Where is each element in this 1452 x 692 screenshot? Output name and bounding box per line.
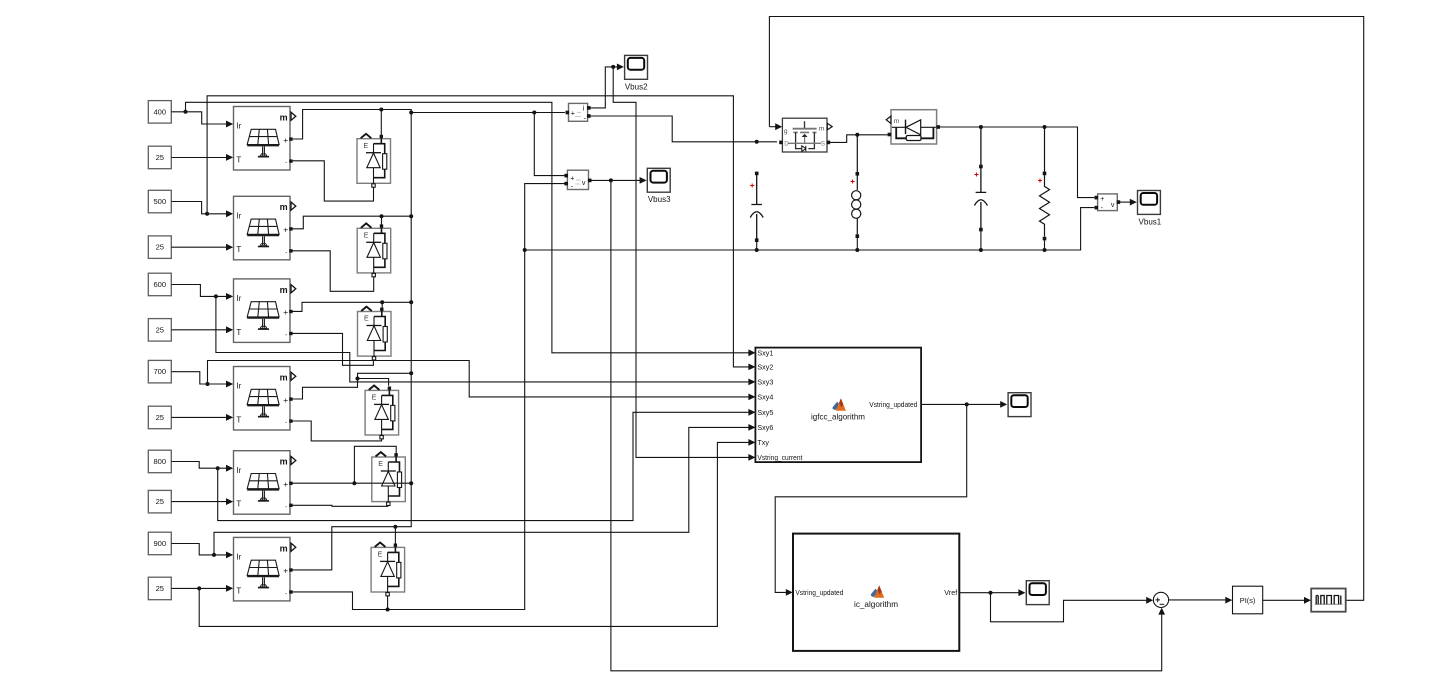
- svg-text:25: 25: [156, 413, 164, 422]
- junction: 500 branch: [205, 212, 209, 216]
- MOSFET block: [779, 118, 832, 152]
- wire: PV1 + to current sensor: [291, 110, 565, 140]
- scope Vbus1: [1138, 191, 1161, 215]
- svg-text:500: 500: [153, 197, 166, 206]
- PV array block PV6: [226, 537, 296, 601]
- arrowhead Vbus2: [617, 64, 624, 71]
- junction: negative bus to rail: [523, 248, 527, 252]
- svg-text:igfcc_algorithm: igfcc_algorithm: [811, 412, 865, 422]
- wire: sum to PI: [1169, 599, 1226, 601]
- arrowhead PV1 T: [226, 154, 233, 161]
- bypass diode block D6: [371, 543, 405, 596]
- junction: diode6 bottom stub: [386, 608, 390, 612]
- wire: diode3 top stub: [381, 302, 383, 308]
- svg-text:S: S: [821, 140, 825, 147]
- junction: v out branch to feedback: [609, 178, 613, 182]
- arrowhead PV4 Ir: [226, 381, 233, 388]
- wire: 25 branch to igfcc Txy: [199, 442, 749, 626]
- svg-text:m: m: [894, 118, 900, 125]
- junction: 400 branch: [184, 110, 188, 114]
- constant block 400: [148, 101, 171, 124]
- arrowhead PV4 T: [226, 414, 233, 421]
- PV array block PV1: [226, 107, 296, 171]
- wire: PWM gate loop top rail: [769, 17, 1363, 601]
- bypass diode block D5: [372, 452, 406, 505]
- junction: rail at inductor: [855, 248, 859, 252]
- voltage measurement block v (Vbus1): [1095, 194, 1121, 212]
- wire: v out feedback to sum: [611, 180, 1162, 670]
- wire: PV4 - to diode4 bottom: [291, 421, 382, 441]
- wire: 400 to PV1 Ir: [171, 112, 226, 124]
- arrowhead Vbus3: [640, 177, 647, 184]
- wire: 500 branch to igfcc Sxy2: [207, 96, 749, 367]
- svg-text:PI(s): PI(s): [1240, 596, 1256, 605]
- wire: 800 to PV5 Ir: [171, 462, 226, 469]
- junction: rail at resistor: [1043, 248, 1047, 252]
- constant block 25 (row5): [148, 490, 171, 513]
- junction: PV2+ on bus: [409, 214, 413, 218]
- svg-text:Vstring_updated: Vstring_updated: [869, 400, 917, 409]
- junction: branch to voltage sensor +: [532, 111, 536, 115]
- wire: PV3 - to diode3 bottom: [291, 333, 374, 365]
- arrowhead PWM input: [1304, 597, 1311, 604]
- wire: 500 to PV2 Ir: [171, 202, 226, 214]
- constant block 25 (row3): [148, 319, 171, 342]
- wire: PV3 + to bus: [291, 302, 412, 311]
- svg-text:g: g: [784, 128, 788, 135]
- junction: Vstring_updated branch: [965, 402, 969, 406]
- svg-text:800: 800: [153, 457, 166, 466]
- wire: diode6 top stub: [394, 527, 396, 544]
- constant block 25 (row4): [148, 406, 171, 429]
- constant block 25 (row2): [148, 236, 171, 259]
- junction: 700 branch: [206, 382, 210, 386]
- arrowhead Sxy2: [748, 364, 755, 371]
- wire: i signal to scope Vbus2: [591, 67, 618, 108]
- constant block 900: [148, 532, 171, 555]
- PV array block PV4: [226, 367, 296, 431]
- wire: boost diode to output rail: [940, 127, 1095, 198]
- junction: load resistor tap: [1043, 125, 1047, 129]
- junction: 900 branch: [212, 553, 216, 557]
- arrowhead PV5 Ir: [226, 465, 233, 472]
- junction: diode6 top stub: [393, 525, 397, 529]
- wire: 25 to PV2 T: [171, 246, 226, 248]
- load resistor: [1038, 128, 1050, 240]
- arrowhead ic input: [786, 589, 793, 596]
- arrowhead gate g input: [775, 123, 782, 130]
- svg-text:Sxy2: Sxy2: [757, 363, 773, 372]
- constant block 600: [148, 273, 171, 296]
- arrowhead PI input: [1225, 597, 1232, 604]
- junction: PV3+ to diode3 top: [380, 300, 384, 304]
- arrowhead Sxy3: [748, 379, 755, 386]
- sum junction: [1153, 592, 1168, 607]
- svg-text:Vref: Vref: [944, 588, 957, 597]
- voltage measurement block v (string): [564, 170, 591, 190]
- wire: Vbus1 sensor to scope: [1120, 201, 1131, 203]
- junction: inductor tap: [855, 133, 859, 137]
- svg-text:v: v: [1111, 202, 1115, 209]
- svg-text:900: 900: [153, 539, 166, 548]
- wire: load resistor bottom to rail: [1044, 241, 1046, 251]
- arrowhead PV1 Ir: [226, 121, 233, 128]
- inductor: [851, 136, 861, 238]
- junction: PV1+ to diode1 top: [379, 108, 383, 112]
- arrowhead igfcc scope: [1000, 401, 1007, 408]
- wire: 25 to PV6 T: [171, 587, 226, 589]
- svg-text:600: 600: [153, 280, 166, 289]
- svg-text:25: 25: [156, 584, 164, 593]
- wire: PV2 + to bus: [291, 216, 412, 229]
- wire: input capacitor bottom to rail: [756, 242, 758, 250]
- wire: 25 to PV1 T: [171, 157, 226, 159]
- bypass diode block D2: [357, 223, 391, 276]
- junction: PV4+ on bus: [409, 371, 413, 375]
- wire: PV5 - to diode5 bottom: [291, 505, 388, 506]
- bypass diode block D1: [357, 134, 391, 187]
- arrowhead sum left input: [1146, 597, 1153, 604]
- svg-text:700: 700: [153, 367, 166, 376]
- wire: MOSFET to boost diode: [830, 135, 888, 143]
- wire: 700 branch to igfcc Sxy4: [208, 361, 749, 397]
- junction: input capacitor tap: [755, 140, 759, 144]
- wire: 600 branch to igfcc Sxy3: [216, 296, 749, 382]
- bypass diode block D3: [358, 307, 392, 360]
- svg-text:ic_algorithm: ic_algorithm: [854, 599, 898, 609]
- wire: 600 to PV3 Ir: [171, 285, 226, 297]
- current measurement block i: [566, 103, 591, 122]
- constant block 25 (row1): [148, 146, 171, 169]
- junction: 800 branch: [216, 466, 220, 470]
- junction: i signal branch: [611, 65, 615, 69]
- MATLAB function block ic_algorithm: [793, 534, 959, 651]
- arrowhead PV5 T: [226, 498, 233, 505]
- scope Vbus3: [647, 168, 670, 192]
- arrowhead Txy: [748, 439, 755, 446]
- svg-text:25: 25: [156, 325, 164, 334]
- constant block 800: [148, 450, 171, 473]
- svg-text:Vstring_updated: Vstring_updated: [795, 588, 843, 597]
- scope igfcc output: [1008, 393, 1031, 417]
- svg-text:Sxy1: Sxy1: [757, 348, 773, 357]
- svg-text:25: 25: [156, 243, 164, 252]
- wire: PV2 - to diode2 bottom: [291, 251, 374, 291]
- svg-text:Txy: Txy: [757, 438, 769, 447]
- junction: rail at output cap: [979, 248, 983, 252]
- MATLAB logo ic: [871, 585, 884, 597]
- wire: Vref to sum: [991, 593, 1147, 622]
- junction: Vref branch: [989, 591, 993, 595]
- junction: rail at input cap: [755, 248, 759, 252]
- junction: PV5+ branch to diode5 top: [352, 481, 356, 485]
- MATLAB function block igfcc_algorithm: [755, 348, 921, 463]
- wire: 700 to PV4 Ir: [171, 372, 226, 384]
- wire: 900 branch to igfcc Sxy6: [214, 427, 749, 555]
- junction: PV3+ on bus: [409, 300, 413, 304]
- wire: PV6 - to diode6 bottom / negative bus: [291, 184, 565, 610]
- junction: PV1+ bus: [409, 111, 413, 115]
- svg-text:Sxy4: Sxy4: [757, 393, 773, 402]
- svg-text:Sxy6: Sxy6: [757, 423, 773, 432]
- wire: PI to PWM: [1263, 599, 1305, 601]
- svg-text:v: v: [582, 178, 586, 187]
- svg-text:Vbus2: Vbus2: [625, 82, 648, 91]
- PWM generator block: [1311, 589, 1346, 612]
- wire: Vstring_updated to ic_algorithm: [775, 404, 967, 592]
- svg-text:Vstring_current: Vstring_current: [757, 453, 802, 462]
- wire: diode2 top stub: [381, 216, 383, 225]
- wire: gate into MOSFET g: [769, 126, 775, 128]
- arrowhead PV6 Ir: [226, 552, 233, 559]
- wire: i signal to igfcc Vstring_current: [613, 67, 749, 458]
- PI controller block: [1233, 586, 1263, 614]
- svg-text:+: +: [571, 109, 575, 118]
- arrowhead PV3 T: [226, 326, 233, 333]
- arrowhead Vstring_current: [748, 454, 755, 461]
- boost diode block: [886, 110, 940, 144]
- wire: inductor bottom to rail: [856, 238, 858, 250]
- svg-text:Sxy5: Sxy5: [757, 408, 773, 417]
- wire: 400 branch to igfcc Sxy1: [186, 102, 749, 352]
- wire: PV4 + to diode4 top: [291, 379, 389, 400]
- wire: branch down to V sensor +: [534, 113, 564, 176]
- wire: 25 to PV5 T: [171, 501, 226, 503]
- arrowhead Vref scope: [1018, 589, 1025, 596]
- junction: PV5+ on bus: [409, 481, 413, 485]
- arrowhead PV6 T: [226, 585, 233, 592]
- wire: diode1 top stub: [380, 110, 382, 136]
- arrowhead PV2 Ir: [226, 210, 233, 217]
- wire: Vstring_updated to scope: [921, 403, 1001, 405]
- wire: PV5+ loop to diode5 top: [354, 446, 396, 483]
- wire: PV1 - to diode1 bottom: [291, 161, 374, 201]
- wire: output capacitor bottom to rail: [980, 231, 982, 250]
- wire: 900 to PV6 Ir: [171, 544, 226, 555]
- wire: PV5 + to bus: [291, 482, 412, 484]
- junction: output capacitor tap: [979, 125, 983, 129]
- arrowhead Vbus1 scope: [1130, 199, 1137, 206]
- svg-text:25: 25: [156, 497, 164, 506]
- svg-text:Vbus1: Vbus1: [1139, 218, 1162, 227]
- svg-text:400: 400: [153, 107, 166, 116]
- wire: Vref to scope: [959, 592, 1019, 594]
- svg-text:m: m: [819, 126, 825, 133]
- wire: v out to scope Vbus3: [591, 179, 640, 181]
- constant block 500: [148, 190, 171, 213]
- wire: converter bottom rail: [525, 208, 1095, 250]
- scope Vref: [1026, 581, 1049, 605]
- junction: 25 branch to Txy: [197, 586, 201, 590]
- arrowhead Sxy6: [748, 424, 755, 431]
- wire: series bus vertical: [291, 113, 412, 570]
- junction: PV4+ branch to bus: [356, 377, 360, 381]
- arrowhead PV3 Ir: [226, 293, 233, 300]
- arrowhead Sxy5: [748, 409, 755, 416]
- scope Vbus2: [625, 55, 648, 79]
- constant block 700: [148, 360, 171, 383]
- svg-text:Sxy3: Sxy3: [757, 378, 773, 387]
- wire: PV4+ branch to bus: [358, 373, 412, 378]
- PV array block PV3: [226, 279, 296, 343]
- wire: diode6 bottom stub: [387, 595, 389, 610]
- PV array block PV5: [226, 451, 296, 515]
- wire: 25 to PV3 T: [171, 329, 226, 331]
- PV array block PV2: [226, 196, 296, 259]
- MATLAB logo igfcc: [833, 398, 846, 410]
- arrowhead sum bottom input: [1158, 608, 1165, 615]
- arrowhead Sxy1: [748, 349, 755, 356]
- wire: i - to MOSFET drain: [591, 116, 777, 142]
- arrowhead Sxy4: [748, 394, 755, 401]
- wire: 25 to PV4 T: [171, 416, 226, 418]
- svg-text:25: 25: [156, 153, 164, 162]
- output capacitor: [974, 128, 987, 231]
- svg-text:+: +: [1100, 196, 1104, 203]
- arrowhead PV2 T: [226, 244, 233, 251]
- bypass diode block D4: [365, 386, 399, 439]
- constant block 25 (row6): [148, 577, 171, 600]
- input capacitor: [750, 172, 763, 242]
- junction: 600 branch: [214, 294, 218, 298]
- wire: 800 branch to igfcc Sxy5: [218, 412, 749, 520]
- junction: PV2+ to diode2 top: [380, 214, 384, 218]
- svg-text:Vbus3: Vbus3: [648, 195, 671, 204]
